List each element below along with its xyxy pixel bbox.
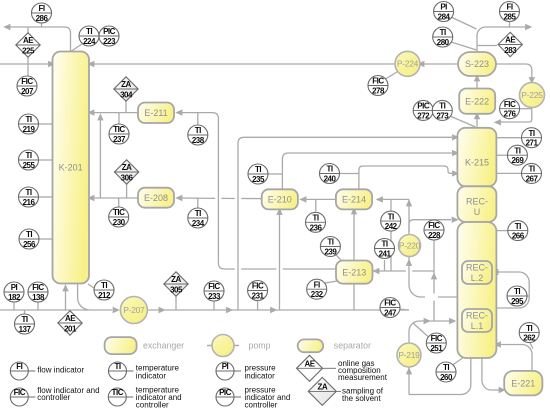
arrowhead into REC-L2 [491, 269, 498, 275]
wire E-213 to E-211 seg2 [241, 268, 276, 270]
svg-text:306: 306 [121, 173, 134, 182]
arrowhead into K-201 left [48, 61, 55, 67]
legend separator symbol [298, 339, 324, 352]
svg-text:285: 285 [504, 13, 517, 22]
wire E-214 to E-210 [306, 198, 336, 200]
svg-text:L.1: L.1 [471, 321, 484, 331]
wire TI-137 stem [24, 310, 26, 314]
wire TI-235 stem [268, 173, 282, 175]
wire E-210 to E-208 seg1 [241, 198, 261, 200]
wire TIC-237 stem [118, 113, 120, 124]
wire TI-212 leader [88, 284, 95, 289]
wire TI-280 leader [450, 42, 477, 51]
arrowhead into E-214 bottom [351, 207, 357, 214]
svg-text:FIC: FIC [208, 282, 220, 291]
wire FIC-247 stem [398, 309, 409, 310]
svg-text:TI: TI [26, 230, 32, 239]
svg-text:TI: TI [195, 209, 201, 218]
svg-text:235: 235 [252, 175, 265, 184]
arrowhead into K-215 feed lower [452, 170, 459, 176]
svg-text:223: 223 [103, 37, 116, 46]
wire PI-182 stem [13, 302, 15, 310]
svg-text:FI: FI [16, 362, 22, 371]
svg-text:pomp: pomp [249, 341, 271, 351]
svg-text:212: 212 [98, 291, 111, 300]
wire REC-L2 loop [495, 272, 529, 308]
svg-text:controller: controller [136, 400, 169, 409]
svg-text:237: 237 [113, 135, 126, 144]
svg-text:234: 234 [192, 219, 205, 228]
vessel E-210 [262, 189, 298, 209]
svg-text:ZA: ZA [317, 383, 327, 392]
arrowhead into E-208 right [175, 195, 182, 201]
wire E-210 to E-208 seg2 [221, 197, 234, 199]
arrowhead vent line left [3, 24, 10, 30]
svg-text:236: 236 [310, 223, 323, 232]
svg-text:230: 230 [113, 218, 126, 227]
instrument TI-295 [507, 286, 527, 306]
legend pump symbol [212, 335, 234, 357]
instrument TI-212 [94, 280, 114, 300]
wire E-213 bottom drain [353, 284, 355, 311]
wire TI-219 stem [39, 123, 53, 125]
svg-text:TI: TI [443, 363, 449, 372]
wire E-214 to K-215 feed [359, 166, 453, 189]
svg-text:the solvent: the solvent [342, 394, 381, 403]
wire riser branch to E-213 [379, 270, 406, 272]
svg-text:233: 233 [208, 292, 221, 301]
svg-text:P-225: P-225 [521, 90, 543, 100]
svg-text:E-211: E-211 [144, 108, 167, 118]
wire E-222 to S-223 [476, 80, 478, 89]
legend item TIC [108, 385, 181, 409]
svg-text:232: 232 [311, 290, 324, 299]
svg-text:219: 219 [23, 125, 36, 134]
instrument TIC-230 [109, 207, 129, 227]
wire E-213 to E-211 seg1 [283, 268, 336, 270]
svg-text:295: 295 [511, 297, 524, 306]
wire solvent line from P-207 [147, 309, 409, 311]
svg-text:AE: AE [304, 360, 315, 369]
instrument FIC-231 [248, 281, 268, 301]
svg-text:PI: PI [222, 362, 229, 371]
instrument AE-283 (diamond) [498, 32, 522, 56]
svg-text:E-214: E-214 [342, 195, 366, 205]
vessel REC-L.2 [462, 261, 492, 284]
wire P-225 to K-215 [500, 107, 532, 122]
svg-text:273: 273 [436, 111, 449, 120]
svg-text:TI: TI [514, 287, 520, 296]
svg-text:269: 269 [511, 156, 524, 165]
svg-text:E-213: E-213 [342, 267, 366, 277]
svg-text:241: 241 [379, 250, 392, 259]
svg-text:216: 216 [23, 198, 36, 207]
wire FI-285 stem [509, 22, 511, 28]
wire P-220 to E-214 [382, 198, 409, 200]
svg-text:240: 240 [324, 175, 337, 184]
svg-text:262: 262 [523, 334, 536, 343]
wire feed into K-201 left [0, 63, 49, 65]
wire FI-232 leader [323, 281, 338, 284]
arrowhead into E-213 right [372, 268, 379, 274]
svg-text:FIC: FIC [21, 77, 33, 86]
wire TI-255 stem [39, 159, 53, 161]
arrowhead into E-211 right [175, 109, 182, 115]
instrument AE-201 (diamond) [58, 311, 82, 335]
svg-text:FI: FI [38, 4, 44, 13]
legend item FI [10, 362, 84, 380]
legend AE label [338, 359, 388, 382]
svg-text:TI: TI [312, 214, 318, 223]
wire K-201 top vent line [5, 27, 71, 52]
arrowhead solvent line a [159, 307, 166, 313]
instrument TI-234 [188, 208, 208, 228]
svg-text:TI: TI [514, 146, 520, 155]
wire E-210 to E-208 seg3 [182, 197, 216, 199]
legend item PIC [216, 385, 290, 409]
legend item TI [109, 362, 180, 381]
wire AE-225/FIC-207 branch [27, 27, 29, 77]
arrowhead into K-201 upper right [87, 109, 94, 115]
svg-text:TIC: TIC [113, 125, 125, 134]
arrowhead solvent line c [270, 307, 277, 313]
vessel K-215 [457, 128, 496, 187]
vessel E-222 [459, 89, 495, 114]
svg-text:separator: separator [334, 341, 371, 351]
pump P-219 [397, 343, 421, 367]
arrowhead into E-210 right [299, 196, 306, 202]
svg-text:FIC: FIC [504, 100, 516, 109]
vessel separator S-223 [458, 52, 496, 76]
svg-text:TI: TI [388, 212, 394, 221]
arrowhead into E-214 right [376, 196, 383, 202]
svg-text:E-221: E-221 [511, 378, 535, 388]
wire E-208 to K-201 [94, 197, 139, 199]
instrument TI-238 [188, 125, 208, 145]
wire TI-216 stem [39, 196, 53, 198]
arrowhead into S-223 bottom [474, 74, 480, 81]
svg-text:PIC: PIC [103, 27, 116, 36]
svg-text:FIC: FIC [428, 221, 440, 230]
wire TI-241 stem [384, 260, 386, 271]
svg-text:228: 228 [428, 231, 441, 240]
svg-text:PI: PI [11, 283, 18, 292]
wire ZA-306 stem [126, 184, 128, 198]
svg-text:FIC: FIC [252, 282, 264, 291]
wire P-224 to K-201 [93, 63, 396, 65]
arrowhead into K-201 bottom [62, 284, 68, 291]
wire E-210 to K-215 feed [282, 153, 452, 189]
svg-text:138: 138 [32, 293, 45, 302]
wire TI-224 leader [70, 44, 82, 52]
arrowhead into P-219 bottom [406, 367, 412, 374]
svg-text:201: 201 [64, 324, 77, 333]
svg-text:137: 137 [19, 325, 32, 334]
instrument ZA-304 (diamond) [114, 77, 138, 101]
svg-text:182: 182 [8, 293, 21, 302]
instrument TI-267 [522, 163, 542, 183]
instrument TI-239 [320, 237, 340, 257]
instrument TI-137 [15, 314, 35, 334]
legend item FIC [10, 386, 99, 406]
wire TI-267 stem [495, 172, 521, 174]
instrument TI-269 [507, 145, 527, 165]
instrument FI-285 [500, 2, 520, 22]
svg-text:ZA: ZA [121, 80, 131, 89]
instrument FIC-138 [28, 282, 48, 302]
svg-text:P-224: P-224 [397, 59, 419, 69]
wire TI-269 stem [495, 154, 507, 156]
pump P-220 [399, 235, 421, 257]
arrowhead into K-215 feed mid [452, 150, 459, 156]
svg-text:TI: TI [25, 188, 31, 197]
wire TI-260 leader [452, 358, 463, 366]
wire TI-239 leader [335, 254, 342, 262]
wire FIC-231 stem [257, 301, 259, 311]
svg-text:280: 280 [437, 38, 450, 47]
svg-text:ZA: ZA [171, 275, 181, 284]
wire PI-284 leader [450, 17, 477, 30]
vessel E-211 [138, 103, 174, 124]
wire P-220 suction from column [438, 296, 457, 298]
svg-text:FIC: FIC [372, 77, 384, 86]
arrowhead into P-207 [113, 307, 120, 313]
legend pump line [207, 345, 239, 347]
svg-text:PIC: PIC [219, 388, 232, 397]
wire S-223 overhead [477, 27, 526, 52]
svg-text:TI: TI [255, 165, 261, 174]
instrument TI-273 [432, 100, 452, 120]
svg-text:278: 278 [372, 87, 385, 96]
wire column bottoms to P-219 [409, 358, 471, 395]
wire K-201 bottoms outlet [78, 284, 112, 311]
wire FIC-233 stem [213, 301, 215, 310]
svg-text:U: U [474, 207, 481, 217]
instrument PIC-223 [99, 26, 119, 46]
wire ZA-304 stem [125, 101, 127, 113]
svg-text:TI: TI [327, 238, 333, 247]
wire FIC-276 stem [520, 108, 532, 110]
arrowhead into REC-U [452, 217, 459, 223]
arrowhead into REC-L1 [449, 318, 456, 324]
svg-text:measurement: measurement [338, 373, 388, 382]
svg-text:TI: TI [439, 102, 445, 111]
svg-text:TI: TI [86, 27, 92, 36]
svg-text:TIC: TIC [112, 388, 124, 397]
instrument FIC-228 [424, 220, 444, 240]
svg-text:231: 231 [252, 292, 265, 301]
wire bypass riser [99, 119, 101, 198]
svg-text:256: 256 [23, 240, 36, 249]
wire E-213 to E-214 [353, 211, 355, 261]
svg-text:TI: TI [528, 165, 534, 174]
svg-text:indicator: indicator [245, 372, 276, 381]
svg-text:284: 284 [438, 13, 451, 22]
legend item PI [216, 362, 276, 381]
wire S-223 to P-224 [422, 63, 459, 65]
svg-text:K-215: K-215 [465, 158, 489, 168]
vessel E-214 [336, 189, 372, 209]
instrument TI-266 [508, 221, 528, 241]
instrument TI-255 [19, 150, 39, 170]
instrument FIC-207 [17, 76, 37, 96]
svg-text:224: 224 [83, 37, 96, 46]
vessel E-213 [336, 261, 373, 284]
svg-text:TI: TI [381, 240, 387, 249]
instrument TI-280 [433, 27, 453, 47]
wire column to E-221 [482, 358, 499, 390]
svg-text:TI: TI [515, 222, 521, 231]
wire TIC-230 stem [118, 198, 120, 207]
instrument TI-242 [381, 211, 401, 231]
wire K-201 reboiler return [65, 285, 67, 310]
instrument ZA-306 (diamond) [114, 160, 138, 184]
vessel REC-L.1 [462, 309, 492, 332]
wire riser to K-215 feed upper [238, 137, 452, 310]
svg-text:TI: TI [101, 281, 107, 290]
svg-text:TI: TI [21, 315, 27, 324]
wire AE-283 leader [477, 45, 497, 47]
instrument FIC-247 [380, 298, 400, 318]
instrument TI-240 [320, 164, 340, 184]
instrument PI-284 [434, 2, 454, 22]
svg-text:305: 305 [170, 285, 183, 294]
legend ZA label [342, 387, 384, 403]
wire TI-238 stem [197, 113, 199, 125]
arrowhead into P-220 bottom [406, 259, 412, 266]
wire riser FIC-228 [433, 240, 435, 294]
arrowhead into K-215 top [494, 119, 501, 125]
svg-text:267: 267 [526, 174, 539, 183]
arrowhead into P-224 [417, 61, 424, 67]
arrowhead into E-222 bottom [474, 112, 480, 119]
svg-text:K-201: K-201 [59, 163, 83, 173]
legend AE symbol [297, 355, 337, 381]
svg-text:indicator: indicator [136, 372, 167, 381]
svg-text:TI: TI [526, 324, 532, 333]
svg-text:286: 286 [36, 14, 49, 23]
wire TI-295 stem [525, 295, 530, 297]
svg-text:255: 255 [23, 161, 36, 170]
wire FIC-251 leader [414, 324, 429, 337]
wire TI-240 stem [340, 173, 359, 175]
svg-text:304: 304 [120, 90, 133, 99]
instrument AE-225 (diamond) [16, 33, 40, 57]
wire P-220 discharge up [408, 199, 410, 235]
svg-text:E-210: E-210 [268, 195, 292, 205]
instrument TI-262 [519, 323, 539, 343]
arrowhead solvent line b [226, 307, 233, 313]
wire K-215 to E-222 [476, 118, 478, 127]
vessel REC-U [457, 186, 496, 222]
svg-text:controller: controller [37, 393, 70, 402]
legend exchanger symbol [105, 337, 137, 354]
legend ZA symbol [308, 377, 341, 405]
instrument FIC-233 [204, 281, 224, 301]
svg-text:REC-: REC- [466, 197, 488, 207]
instrument TI-235 [248, 164, 268, 184]
svg-text:REC-: REC- [466, 263, 488, 273]
pump P-207 [120, 297, 147, 324]
svg-text:225: 225 [22, 46, 35, 55]
arrowhead into E-221 left [499, 387, 506, 393]
arrowhead into column right [494, 341, 501, 347]
instrument FI-286 [32, 3, 52, 23]
svg-text:TI: TI [528, 129, 534, 138]
svg-text:272: 272 [417, 111, 430, 120]
wire P-219 suction [408, 367, 410, 395]
svg-text:P-220: P-220 [399, 240, 421, 250]
svg-text:FI: FI [506, 3, 512, 12]
svg-text:FI: FI [314, 280, 320, 289]
wire solvent line to P-207 [0, 309, 88, 311]
arrowhead overhead right [525, 24, 532, 30]
instrument FIC-276 [500, 99, 520, 119]
arrowhead into K-201 mid right [87, 195, 94, 201]
wire TI-234 stem [197, 198, 199, 208]
arrowhead into K-215 feed upper [452, 134, 459, 140]
svg-text:FIC: FIC [431, 334, 443, 343]
svg-text:PIC: PIC [417, 102, 430, 111]
svg-text:controller: controller [245, 400, 278, 409]
vessel K-201 [53, 52, 90, 284]
wire riser into E-210 [279, 212, 281, 310]
instrument PIC-272 [413, 100, 433, 120]
svg-text:251: 251 [430, 344, 443, 353]
svg-text:flow indicator: flow indicator [37, 365, 84, 374]
svg-text:238: 238 [192, 136, 205, 145]
wire TI-266 stem [495, 230, 508, 232]
svg-text:AE: AE [505, 36, 516, 45]
arrowhead bypass riser up [97, 113, 103, 120]
svg-text:E-208: E-208 [144, 193, 168, 203]
wire FIC-278 leader [386, 71, 399, 79]
svg-text:S-223: S-223 [465, 59, 489, 69]
svg-text:TI: TI [25, 115, 31, 124]
svg-text:266: 266 [512, 232, 525, 241]
instrument PI-182 [4, 282, 24, 302]
svg-text:P-219: P-219 [398, 350, 420, 360]
arrowhead into K-201 right [87, 61, 94, 67]
wire riser branch to E-213 seg1 [412, 270, 434, 272]
wire E-213 to E-211 [182, 113, 235, 269]
wire TI-236 stem [315, 199, 317, 211]
pump P-225 [520, 83, 545, 108]
svg-text:271: 271 [526, 139, 539, 148]
arrowhead into P-225 top [529, 77, 535, 84]
wire TI-256 stem [39, 238, 53, 240]
wire P-220 suction [409, 257, 425, 298]
svg-text:AE: AE [23, 36, 34, 45]
vessel E-221 [504, 371, 542, 396]
wire FI-286 stem [41, 23, 43, 28]
svg-text:E-222: E-222 [465, 96, 489, 106]
wire TI-271 stem [495, 137, 521, 139]
instrument TI-216 [19, 187, 39, 207]
svg-text:TI: TI [440, 28, 446, 37]
svg-text:283: 283 [504, 46, 517, 55]
instrument FIC-251 [426, 333, 446, 353]
instrument FI-232 [307, 279, 327, 299]
wire TI-242 instrument line [390, 199, 392, 271]
instrument TI-260 [436, 362, 456, 382]
svg-text:239: 239 [324, 248, 337, 257]
instrument TI-241 [375, 239, 395, 259]
svg-text:TI: TI [326, 165, 332, 174]
instrument TI-256 [19, 229, 39, 249]
svg-text:276: 276 [504, 110, 517, 119]
vessel recovery column lower shell [457, 222, 496, 358]
